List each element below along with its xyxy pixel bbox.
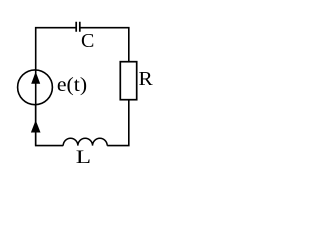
voltage source polarity arrow <box>31 72 40 84</box>
wire: capacitor to top-right corner down to resistor <box>80 28 129 62</box>
current direction arrow on left wire <box>31 120 41 132</box>
resistor R body <box>120 62 136 100</box>
svg-text:e(t): e(t) <box>57 74 87 96</box>
svg-text:C: C <box>81 30 94 52</box>
wire: resistor bottom to bottom-right corner to inductor <box>107 100 129 146</box>
svg-text:L: L <box>76 147 91 168</box>
voltage source e(t) circle <box>18 70 53 105</box>
wire: left-top segment to capacitor <box>36 28 76 70</box>
inductor L humps <box>63 138 107 145</box>
wire: inductor to bottom-left corner up left side <box>36 105 64 146</box>
svg-text:R: R <box>139 68 154 90</box>
wire: left side through source circle <box>35 70 37 146</box>
capacitor C plates <box>76 22 80 32</box>
